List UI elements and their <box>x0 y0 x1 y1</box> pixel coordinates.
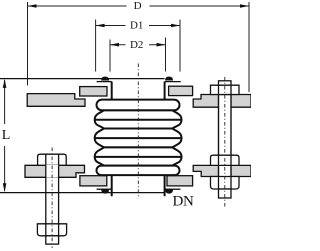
bellows convolution 2 <box>95 129 182 148</box>
dimension D2 extension line right <box>165 38 167 72</box>
dimension D arrow right <box>240 4 249 8</box>
upper-left pipe flange A1 <box>27 94 85 107</box>
bellows mid chord 1 <box>95 119 182 121</box>
left bolt shaft hole through flange <box>46 165 59 178</box>
dimension D1 extension line left <box>95 20 97 72</box>
right bolt shaft <box>219 95 232 190</box>
right bolt upper hex facets <box>219 155 232 165</box>
dimension D extension line right <box>248 2 250 92</box>
top lip line left <box>97 81 112 83</box>
bellows mid chord 2 <box>95 137 182 139</box>
dimension D2 extension line left <box>109 40 111 72</box>
svg-text:D1: D1 <box>130 19 143 31</box>
top-right rubber bead <box>165 77 173 81</box>
left bolt nut facets <box>46 224 59 236</box>
bellows convolution 3 <box>95 147 182 165</box>
lower-left pipe flange A3 <box>25 165 85 177</box>
right bolt top nut <box>211 85 240 94</box>
dimension L arrow up <box>3 79 7 88</box>
left bolt shaft <box>46 165 59 224</box>
dimension L arrow down <box>3 183 7 192</box>
bellows bottom cuff <box>97 166 180 176</box>
upper-left backing flange B1 <box>80 87 107 96</box>
svg-text:D: D <box>134 0 142 12</box>
dimension D extension line left <box>27 2 29 86</box>
right bolt top stub <box>219 81 232 85</box>
lower-left backing flange B3 <box>80 176 107 186</box>
bellows mid chord 3 <box>95 156 182 158</box>
dimension D1 extension line right <box>179 20 181 72</box>
right bolt bottom stub <box>219 189 232 198</box>
right bolt top nut facets <box>219 85 232 94</box>
dimension D1 arrow right <box>171 24 180 28</box>
dimension D2 arrow left <box>110 43 119 47</box>
bottom-right rubber bead <box>165 189 173 193</box>
svg-text:L: L <box>2 128 11 143</box>
upper-right backing flange B2 <box>169 86 193 95</box>
main center line <box>137 64 139 199</box>
top collar right edge <box>164 82 166 100</box>
right bolt lower nut facets <box>219 177 232 189</box>
top mating line <box>0 78 165 80</box>
bottom lip line right <box>165 188 181 190</box>
right bolt center line <box>224 77 226 208</box>
dimension L line <box>4 80 6 191</box>
bottom mating line <box>0 192 165 194</box>
bellows top cuff <box>97 100 180 111</box>
dimension D1 line <box>96 25 180 27</box>
right bolt upper hex head <box>211 155 240 165</box>
bottom lip line left <box>97 188 112 190</box>
bottom collar right edge <box>164 175 166 196</box>
top-left rubber bead <box>101 77 109 81</box>
bellows convolution 1 <box>95 110 182 128</box>
dimension D2 arrow right <box>157 43 166 47</box>
svg-text:D2: D2 <box>130 39 143 51</box>
bottom-left rubber bead <box>101 189 109 193</box>
left bolt head <box>38 154 67 165</box>
lower-right pipe flange A4 <box>193 165 251 176</box>
right bolt lower nut <box>211 177 240 190</box>
lower-right backing flange B4 <box>167 176 193 186</box>
upper-right pipe flange A2 <box>193 95 251 108</box>
svg-text:DN: DN <box>172 193 194 209</box>
dimension D arrow left <box>28 4 37 8</box>
top collar left edge <box>111 82 113 100</box>
left bolt nut <box>37 224 66 236</box>
dimension D1 arrow left <box>96 24 105 28</box>
dimension D2 line <box>110 44 165 46</box>
top lip line right <box>165 81 181 83</box>
left bolt center line <box>51 148 53 249</box>
bottom collar left edge <box>111 175 113 196</box>
left bolt head facets <box>46 154 59 165</box>
left bolt end stub <box>46 236 59 244</box>
dimension D line <box>28 5 249 7</box>
